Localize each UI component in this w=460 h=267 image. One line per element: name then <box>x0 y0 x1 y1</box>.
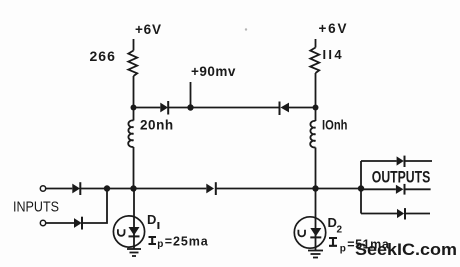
svg-text:IOnh: IOnh <box>322 117 348 132</box>
tunnel diode D1 arrow <box>129 227 140 235</box>
svg-text:INPUTS: INPUTS <box>13 200 59 216</box>
wire diode CR2 to node C <box>289 107 316 109</box>
diode CR8 (points right) <box>397 209 404 218</box>
svg-text:p: p <box>157 239 163 250</box>
label Ip=51ma <box>329 238 337 246</box>
wire output bottom to edge <box>405 213 430 215</box>
diode CR5 (points right) <box>206 184 214 194</box>
resistor R2 value 114 <box>310 48 319 74</box>
svg-text:p: p <box>340 244 346 255</box>
tunnel diode D2 letter u <box>298 230 305 237</box>
svg-text:2: 2 <box>337 225 343 236</box>
wire node F to node G <box>316 188 362 190</box>
wire through D2 <box>315 189 317 251</box>
diode CR3 (points right) <box>72 184 80 194</box>
wire input 1 to diode CR3 <box>46 188 73 190</box>
diode CR2 (points left) <box>279 102 281 116</box>
svg-text:+90mv: +90mv <box>191 64 236 79</box>
wire resistor to node A <box>133 76 135 108</box>
inductor L2 10nh <box>315 108 317 122</box>
wire output middle to edge <box>405 188 431 190</box>
node F junction dot <box>312 185 318 191</box>
wire node B to diode CR2 <box>191 107 280 109</box>
svg-text:D: D <box>328 215 337 230</box>
wire node D to node E <box>107 188 134 190</box>
svg-text:+6V: +6V <box>319 21 349 36</box>
wire output branch middle <box>361 188 396 190</box>
ground G2 <box>308 250 323 252</box>
svg-text:266: 266 <box>90 48 116 64</box>
wire +90mv probe stub <box>190 82 192 108</box>
input terminal 1 <box>40 186 45 191</box>
wire from +6V left down to resistor <box>133 39 135 51</box>
wire diode CR1 to node B <box>168 107 190 109</box>
wire from +6V right down to resistor <box>315 39 317 48</box>
wire node A to diode CR1 <box>134 107 161 109</box>
wire output branch bottom <box>361 213 397 215</box>
speck artifact <box>245 28 247 30</box>
diode CR7 (points right) <box>396 185 404 194</box>
ground G1 <box>127 248 141 250</box>
resistor R1 value 266 <box>128 51 137 77</box>
svg-text:20nh: 20nh <box>140 118 174 133</box>
wire diode CR3 to node D <box>80 188 107 190</box>
node E junction dot <box>130 185 136 191</box>
wire through D1 <box>133 189 135 250</box>
label Ip=25ma <box>149 237 157 244</box>
wire input 2 to diode CR4 <box>46 222 74 224</box>
tunnel diode D2 circle <box>294 217 325 248</box>
diode CR1 (points right) <box>160 103 168 113</box>
node A junction dot <box>131 105 137 111</box>
svg-text:OUTPUTS: OUTPUTS <box>372 167 431 186</box>
svg-text:=25ma: =25ma <box>165 234 209 248</box>
node C junction dot <box>313 105 319 111</box>
wire diode CR5 to node F <box>216 188 316 190</box>
wire inductor L1 to bottom rail <box>133 147 135 189</box>
svg-text:D: D <box>147 212 156 227</box>
wire resistor R2 to node C <box>315 73 317 108</box>
tunnel diode D1 circle <box>113 216 144 247</box>
diode CR4 (points right) <box>74 218 82 228</box>
svg-text:II4: II4 <box>323 47 344 62</box>
svg-text:=51ma: =51ma <box>347 238 390 252</box>
node G junction dot <box>358 185 364 191</box>
wire inductor L2 to bottom rail <box>315 148 317 189</box>
inductor L1 20nh <box>133 108 135 121</box>
wire node E to diode CR5 <box>134 188 207 190</box>
wire diode CR4 right then up to node D <box>82 189 107 224</box>
input terminal 2 <box>40 220 45 225</box>
wire output top to edge <box>405 160 433 162</box>
tunnel diode D1 letter u <box>118 229 125 236</box>
wire output bus vertical <box>360 161 362 214</box>
wire output branch top <box>361 160 397 162</box>
node B junction dot <box>187 104 193 110</box>
diode CR6 (points right) <box>397 156 404 165</box>
node D junction dot <box>104 185 110 191</box>
svg-text:+6V: +6V <box>135 22 162 37</box>
tunnel diode D2 arrow <box>310 228 321 236</box>
